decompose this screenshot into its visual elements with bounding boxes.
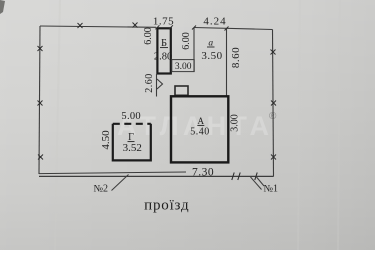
boundary top-left	[40, 26, 156, 27]
x-mark top 2	[133, 23, 138, 28]
tick at 4.24 left	[192, 26, 196, 30]
x-mark left 1	[38, 46, 43, 51]
label a underline	[207, 46, 215, 48]
svg-text:5.40: 5.40	[190, 127, 210, 138]
building A outline	[171, 96, 228, 162]
boundary top-right	[194, 28, 273, 30]
No2 leader slash	[112, 175, 129, 191]
tick at 4.24 right	[225, 27, 229, 31]
tick 3 on bottom line	[255, 173, 257, 181]
svg-text:4.24: 4.24	[203, 16, 226, 28]
svg-text:8.60: 8.60	[230, 47, 242, 68]
survey x-marks	[38, 23, 277, 160]
svg-text:5.00: 5.00	[121, 111, 141, 122]
boundary bottom lower line	[39, 175, 274, 177]
svg-text:3.00: 3.00	[230, 114, 241, 132]
svg-text:7.30: 7.30	[192, 167, 214, 179]
svg-text:6.00: 6.00	[143, 27, 154, 45]
tick at 1.75 left	[155, 25, 159, 29]
x-mark top 1	[78, 23, 83, 28]
svg-text:2.60: 2.60	[144, 73, 155, 93]
tick 2 on bottom line	[238, 173, 240, 181]
gate chevron	[157, 79, 163, 89]
svg-text:6.00: 6.00	[181, 32, 192, 50]
No1 leader slash 1	[251, 177, 262, 190]
boundary right	[273, 30, 274, 177]
svg-text:№2: №2	[94, 184, 109, 195]
svg-text:проїзд: проїзд	[144, 198, 189, 214]
3.00 box annex	[172, 60, 194, 72]
svg-text:№1: №1	[264, 184, 279, 195]
boundary left	[39, 26, 40, 174]
svg-text:3.52: 3.52	[123, 142, 142, 154]
x-mark left 3	[38, 155, 43, 160]
svg-text:3.00: 3.00	[175, 62, 192, 72]
boundary bottom upper line	[39, 172, 186, 174]
tick 1 on bottom line	[232, 173, 234, 181]
label G underline	[128, 141, 135, 143]
x-mark left 2	[38, 101, 43, 106]
svg-text:А: А	[198, 116, 205, 126]
building B (Б) outline	[157, 28, 170, 73]
building A porch bump	[175, 86, 188, 95]
x-mark right 3	[271, 155, 276, 160]
label B underline	[160, 47, 168, 49]
svg-text:3.50: 3.50	[201, 50, 222, 62]
building G dashed top	[113, 123, 151, 125]
svg-text:4.50: 4.50	[100, 130, 112, 150]
svg-text:2.80: 2.80	[154, 52, 172, 63]
scan texture streaks	[55, 0, 340, 250]
dim line 8.60	[226, 29, 228, 96]
svg-text:1.75: 1.75	[153, 16, 174, 28]
label A underline	[197, 124, 204, 126]
x-mark right 2	[271, 101, 276, 106]
wire a-region left line	[193, 28, 195, 72]
building G (Г) outline	[113, 124, 151, 161]
corner smudge	[0, 0, 5, 14]
tick at 1.75 right	[169, 25, 173, 29]
No1 leader slash 2	[257, 177, 265, 186]
gate line	[156, 74, 158, 97]
x-mark right 1	[271, 50, 276, 55]
